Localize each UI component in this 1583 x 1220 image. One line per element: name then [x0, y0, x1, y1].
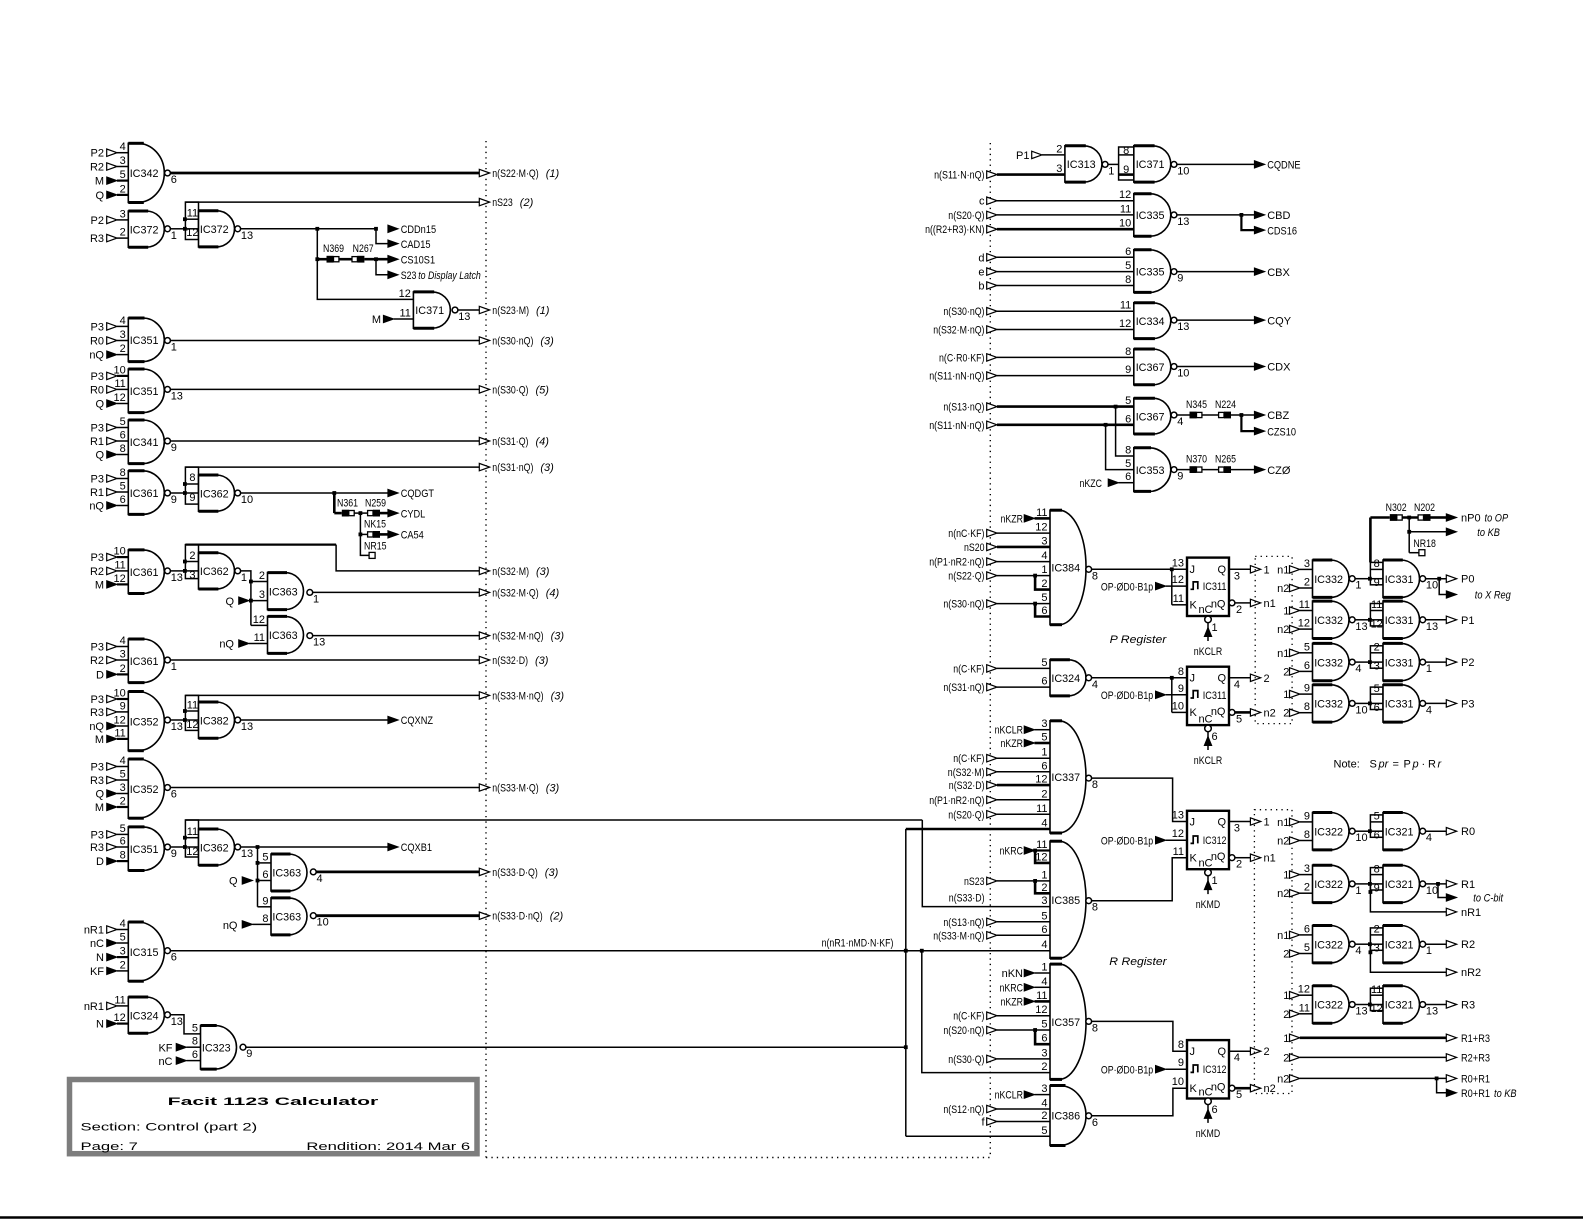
node KF [158, 1042, 200, 1054]
svg-text:R3: R3 [90, 707, 104, 719]
wire IC311b.nQ out [1229, 710, 1250, 726]
flag n(S32·M·Q) (4) [313, 587, 560, 599]
node R3 [90, 707, 117, 719]
svg-text:nKMD: nKMD [1196, 899, 1220, 911]
svg-text:P3: P3 [91, 474, 104, 486]
gate IC315 [117, 918, 177, 981]
wire IC335a.13 output [1177, 214, 1254, 216]
gate IC353 [1125, 445, 1183, 492]
svg-text:N302: N302 [1386, 502, 1407, 514]
svg-text:2: 2 [1304, 577, 1310, 589]
wire IC337.8 to IC312a J [1092, 778, 1187, 821]
svg-text:9: 9 [1123, 164, 1129, 176]
svg-text:12: 12 [1371, 618, 1383, 630]
svg-text:nC: nC [1198, 857, 1212, 869]
svg-text:6: 6 [192, 1049, 198, 1061]
svg-text:12: 12 [1035, 1004, 1047, 1016]
svg-text:4: 4 [120, 918, 126, 930]
gate IC324a [114, 994, 183, 1033]
flag CYDL [388, 508, 425, 520]
clear pin IC311a nC [1194, 616, 1222, 658]
wire to tie-box [1355, 883, 1370, 885]
svg-text:N259: N259 [365, 497, 386, 509]
svg-text:2: 2 [1056, 143, 1062, 155]
flag CBZ [1254, 410, 1289, 422]
svg-text:12: 12 [114, 715, 126, 727]
wire nR1 tap [1369, 884, 1447, 912]
node nS20 [964, 542, 1050, 554]
flag CQDNE [1254, 160, 1300, 172]
svg-text:9: 9 [120, 700, 126, 712]
tie-box IC331c pins 2,3 [1368, 642, 1383, 673]
svg-text:IC311: IC311 [1203, 581, 1227, 593]
junction [374, 257, 378, 261]
svg-text:n(S11·N·nQ): n(S11·N·nQ) [934, 170, 984, 182]
node n2 [1277, 836, 1312, 848]
dotted bus box P [1255, 556, 1292, 723]
svg-text:N370: N370 [1186, 453, 1207, 465]
svg-text:2: 2 [120, 227, 126, 239]
svg-text:3: 3 [1041, 718, 1047, 730]
svg-text:3: 3 [1056, 163, 1062, 175]
svg-text:KF: KF [90, 966, 104, 978]
svg-text:11: 11 [254, 632, 265, 644]
svg-text:2: 2 [1236, 859, 1242, 871]
junction [1240, 413, 1244, 417]
svg-text:12: 12 [114, 1012, 126, 1024]
svg-text:5: 5 [120, 416, 126, 428]
svg-text:5: 5 [120, 769, 126, 781]
junction [1114, 405, 1118, 409]
svg-text:P3: P3 [91, 642, 104, 654]
svg-text:IC322: IC322 [1314, 1000, 1343, 1012]
svg-text:12: 12 [253, 614, 265, 626]
tie-box IC331b pins 11,12 [1368, 599, 1383, 630]
svg-text:9: 9 [246, 1048, 252, 1060]
svg-text:5: 5 [1041, 910, 1047, 922]
pin 9 [1178, 1057, 1184, 1069]
svg-text:2: 2 [1283, 666, 1289, 678]
diode N302 [1386, 502, 1407, 521]
svg-text:nR1: nR1 [1461, 907, 1481, 919]
svg-text:CZØ: CZØ [1267, 465, 1291, 477]
node n(S13·nQ) [943, 402, 1133, 414]
wire IC331a.10 to P0 [1426, 577, 1447, 581]
svg-text:nR1: nR1 [84, 925, 104, 937]
pin 12 [1172, 828, 1184, 840]
pin 10 [1172, 700, 1184, 712]
svg-text:12: 12 [1371, 1003, 1383, 1015]
svg-text:1: 1 [1283, 870, 1289, 882]
svg-text:nKZR: nKZR [1001, 513, 1024, 525]
node n1 [1277, 564, 1312, 576]
svg-text:Q: Q [95, 450, 104, 462]
svg-text:R Register: R Register [1109, 956, 1168, 968]
svg-text:13: 13 [241, 230, 253, 242]
svg-text:1: 1 [1355, 885, 1361, 897]
svg-text:12: 12 [399, 288, 411, 300]
gate IC331a [1383, 560, 1438, 597]
clock label OP·ØD0·B1p [1101, 835, 1187, 847]
svg-text:13: 13 [313, 637, 325, 649]
svg-text:5: 5 [1236, 1089, 1242, 1101]
svg-text:10: 10 [1172, 700, 1184, 712]
junction [1407, 516, 1411, 520]
arrow into P-bus 2 [1250, 673, 1269, 685]
flag n(S32·M) (3) [479, 566, 549, 578]
svg-text:n(C·KF): n(C·KF) [953, 1011, 984, 1023]
node n(S12·nQ) [943, 1104, 1050, 1116]
node n(nC·KF) [948, 528, 1050, 540]
node nQ [219, 639, 267, 651]
svg-text:n(S33·D·Q): n(S33·D·Q) [492, 867, 538, 879]
svg-text:1: 1 [171, 230, 177, 242]
svg-text:IC331: IC331 [1385, 657, 1414, 669]
svg-text:IC312: IC312 [1203, 1064, 1227, 1076]
svg-text:P3: P3 [91, 762, 104, 774]
arrow into P-bus n2 [1250, 707, 1275, 719]
node M [95, 734, 117, 746]
svg-text:P2: P2 [91, 148, 104, 160]
svg-text:R0: R0 [90, 336, 104, 348]
svg-text:11: 11 [114, 378, 125, 390]
svg-text:5: 5 [1041, 1125, 1047, 1137]
svg-text:10: 10 [114, 364, 126, 376]
svg-text:3: 3 [1041, 1083, 1047, 1095]
gate IC322b [1304, 863, 1362, 903]
svg-text:n(S31·nQ): n(S31·nQ) [943, 682, 984, 694]
diode N369 [323, 243, 344, 263]
node 2 [1283, 708, 1312, 720]
svg-text:8: 8 [1374, 558, 1380, 570]
svg-text:CS10S1: CS10S1 [401, 254, 435, 266]
svg-text:n(P1·nR2·nQ): n(P1·nR2·nQ) [929, 795, 984, 807]
gate IC321a [1383, 813, 1432, 850]
svg-text:N265: N265 [1215, 453, 1236, 465]
svg-text:n(S22·M·Q): n(S22·M·Q) [492, 168, 538, 180]
flip-flop IC312b [1187, 1040, 1229, 1099]
wire IC362a.10 output [241, 492, 388, 494]
tie-box IC321c pins 2,3 [1368, 924, 1383, 955]
junction [256, 845, 260, 849]
flag n(S22·M·Q) (1) [171, 168, 560, 180]
gate IC386 [1041, 1083, 1098, 1145]
svg-text:R0+R1: R0+R1 [1461, 1073, 1490, 1085]
svg-text:11: 11 [114, 559, 125, 571]
svg-text:n(S33·D·nQ): n(S33·D·nQ) [492, 911, 542, 923]
node M [95, 176, 117, 188]
svg-text:12: 12 [186, 719, 198, 731]
tie-box IC331d pins 5,6 [1368, 683, 1383, 714]
node R0 [90, 336, 117, 348]
gate IC382 [199, 702, 254, 738]
label P Register [1110, 634, 1168, 646]
page bottom rule [0, 1216, 1583, 1219]
svg-text:IC342: IC342 [130, 168, 159, 180]
wire IC323.9 long net [246, 1046, 906, 1048]
svg-text:13: 13 [1177, 321, 1189, 333]
svg-text:nQ: nQ [89, 350, 104, 362]
svg-text:12: 12 [186, 227, 198, 239]
svg-text:R2: R2 [90, 566, 104, 578]
node nKN [1002, 968, 1050, 980]
node n(C·R0·KF) [939, 352, 1134, 364]
svg-text:8: 8 [262, 913, 268, 925]
svg-text:6: 6 [171, 174, 177, 186]
flag CQXNZ [388, 715, 433, 727]
svg-text:n(S32·D): n(S32·D) [492, 655, 528, 667]
svg-text:n(S33·M·Q): n(S33·M·Q) [492, 783, 538, 795]
svg-text:Q: Q [1217, 673, 1226, 685]
svg-text:3: 3 [120, 649, 126, 661]
wire nS23 [185, 201, 480, 203]
svg-text:3: 3 [1041, 1047, 1047, 1059]
svg-text:(3): (3) [540, 462, 554, 474]
svg-text:12: 12 [186, 846, 198, 858]
svg-text:S23: S23 [401, 270, 417, 282]
svg-text:IC363: IC363 [272, 868, 301, 880]
svg-text:nKZC: nKZC [1080, 478, 1103, 490]
arrow into P-bus n1 [1250, 598, 1275, 610]
svg-text:13: 13 [1355, 1006, 1367, 1018]
svg-text:11: 11 [1036, 839, 1047, 851]
svg-text:10: 10 [1355, 704, 1367, 716]
wire to IC371 pin 12 [317, 259, 413, 299]
gate IC385 [1035, 839, 1098, 958]
diode N202 [1414, 502, 1435, 521]
svg-text:P1: P1 [1016, 150, 1029, 162]
svg-text:n(S13·nQ): n(S13·nQ) [943, 917, 984, 929]
svg-text:5: 5 [1374, 811, 1380, 823]
flag n(S32·D) (3) [171, 655, 549, 667]
node R3 [90, 775, 117, 787]
svg-text:1: 1 [1283, 990, 1289, 1002]
node nR1 [84, 1001, 117, 1013]
svg-text:n(S32·M·nQ): n(S32·M·nQ) [492, 631, 543, 643]
svg-text:n(S30·Q): n(S30·Q) [948, 1054, 984, 1066]
node P3 [91, 371, 117, 383]
svg-text:9: 9 [1178, 683, 1184, 695]
flag P3 [1446, 698, 1474, 710]
svg-text:P: P [1404, 759, 1411, 771]
svg-text:4: 4 [1177, 416, 1183, 428]
svg-text:3: 3 [1374, 943, 1380, 955]
svg-text:(3): (3) [551, 690, 565, 702]
node M [95, 579, 117, 591]
title block [70, 1080, 478, 1154]
svg-text:12: 12 [114, 392, 126, 404]
gate IC352a [114, 688, 183, 751]
wire IC353.9 output [1177, 469, 1254, 471]
tie-box IC362c pins 11,12 [183, 820, 199, 858]
wire nMD net [906, 829, 1050, 1136]
svg-text:N: N [96, 1019, 104, 1031]
svg-text:(4): (4) [546, 587, 560, 599]
flag CDX [1254, 362, 1291, 374]
svg-text:(3): (3) [536, 566, 550, 578]
svg-text:8: 8 [1374, 863, 1380, 875]
gate IC337 [1035, 718, 1098, 833]
wire [380, 512, 388, 515]
gate IC313 [1056, 143, 1114, 182]
node n(S20·Q) [948, 210, 1134, 222]
svg-text:1: 1 [1264, 817, 1270, 829]
gate IC372b [199, 211, 254, 247]
svg-text:1: 1 [171, 661, 177, 673]
node nC [158, 1056, 200, 1068]
svg-text:2: 2 [1264, 673, 1270, 685]
svg-text:10: 10 [317, 917, 329, 929]
flag R2+R3 [1446, 1052, 1490, 1064]
svg-text:CDX: CDX [1267, 362, 1291, 374]
flag R1+R3 [1446, 1033, 1490, 1045]
svg-text:8: 8 [120, 443, 126, 455]
svg-text:5: 5 [192, 1022, 198, 1034]
wire IC334.13 output [1177, 319, 1254, 321]
svg-text:IC371: IC371 [415, 305, 444, 317]
svg-text:1: 1 [1041, 747, 1047, 759]
svg-text:1: 1 [171, 342, 177, 354]
svg-text:3: 3 [1304, 863, 1310, 875]
svg-text:IC332: IC332 [1314, 699, 1343, 711]
node 2 [1283, 666, 1312, 678]
flag CQXB1 [388, 842, 432, 854]
svg-text:8: 8 [1178, 1039, 1184, 1051]
gate IC331c [1383, 643, 1432, 680]
svg-text:NK15: NK15 [364, 519, 386, 531]
node n(S30·nQ) [943, 306, 1133, 318]
flag n(S30·Q) (5) [171, 384, 550, 396]
flag R1 [1446, 879, 1475, 891]
svg-text:CAD15: CAD15 [401, 239, 431, 251]
junction [904, 949, 908, 953]
node M [372, 314, 394, 326]
node 1 [1283, 870, 1312, 882]
node nQ [89, 501, 117, 513]
svg-text:10: 10 [1426, 885, 1438, 897]
wire IC321c.1 to R2 [1426, 943, 1447, 945]
svg-text:M: M [95, 802, 104, 814]
svg-text:n2: n2 [1264, 1083, 1276, 1095]
svg-text:IC332: IC332 [1314, 657, 1343, 669]
junction [1104, 423, 1108, 427]
svg-text:Q: Q [225, 596, 234, 608]
svg-text:nKMD: nKMD [1196, 1128, 1220, 1140]
svg-text:IC331: IC331 [1385, 574, 1414, 586]
svg-text:IC323: IC323 [202, 1043, 231, 1055]
svg-text:OP·ØD0·B1p: OP·ØD0·B1p [1101, 835, 1153, 847]
flag CZØ [1254, 465, 1290, 477]
flag n(S33·M·Q) (3) [171, 783, 560, 795]
node N [96, 952, 117, 964]
svg-text:P3: P3 [91, 694, 104, 706]
svg-text:6: 6 [1374, 702, 1380, 714]
svg-text:(2): (2) [520, 197, 534, 209]
svg-text:11: 11 [1299, 1002, 1310, 1014]
node n2 [1277, 624, 1312, 636]
wire IC362c.13 output [241, 846, 388, 848]
svg-text:12: 12 [1035, 522, 1047, 534]
wire to KB [1409, 518, 1500, 539]
svg-text:2: 2 [259, 570, 265, 582]
svg-text:N: N [96, 952, 104, 964]
svg-text:2: 2 [1304, 882, 1310, 894]
svg-text:Q: Q [1217, 816, 1226, 828]
gate IC363c (upper) [262, 851, 322, 891]
node nKCLR [995, 725, 1050, 737]
svg-text:R0: R0 [1461, 826, 1475, 838]
svg-text:IC352: IC352 [130, 784, 159, 796]
svg-text:IC332: IC332 [1314, 574, 1343, 586]
svg-text:S: S [1370, 759, 1377, 771]
svg-text:11: 11 [1036, 990, 1047, 1002]
flag CQDGT [388, 488, 434, 500]
flag n(S33·D·nQ) (2) [316, 911, 563, 923]
node n1 [1277, 648, 1312, 660]
pin 11 [1173, 846, 1184, 858]
svg-text:12: 12 [1035, 774, 1047, 786]
svg-text:n1: n1 [1264, 598, 1276, 610]
svg-text:CDS16: CDS16 [1267, 225, 1297, 237]
clear pin IC312a nC [1196, 869, 1220, 911]
svg-text:1: 1 [1212, 875, 1218, 887]
node 2 [1283, 1009, 1312, 1021]
node 2 [1283, 949, 1312, 961]
node 1 [1283, 990, 1312, 1002]
wire IC335b.9 output [1177, 271, 1254, 273]
svg-text:4: 4 [1041, 550, 1047, 562]
svg-text:nQ: nQ [89, 501, 104, 513]
pin 13 [1172, 810, 1184, 822]
svg-text:IC351: IC351 [130, 844, 159, 856]
pin 10 [1172, 1076, 1184, 1088]
wire IC372b.13 output [241, 228, 376, 230]
svg-text:5: 5 [120, 932, 126, 944]
wire IC367b.4 output [1177, 414, 1254, 416]
svg-text:11: 11 [1036, 507, 1047, 519]
gate IC332b [1298, 599, 1368, 639]
svg-text:IC324: IC324 [1051, 673, 1080, 685]
label R Register [1109, 956, 1168, 968]
gate IC322a [1304, 810, 1368, 850]
svg-text:CYDL: CYDL [401, 508, 426, 520]
node KF [90, 966, 117, 978]
svg-text:9: 9 [1178, 1057, 1184, 1069]
svg-text:nKZR: nKZR [1001, 738, 1024, 750]
wire IC312b.nQ out [1229, 1085, 1250, 1101]
svg-text:1: 1 [1108, 165, 1114, 177]
diode N370 [1186, 453, 1207, 473]
wire to X Reg [1439, 579, 1511, 602]
svg-text:CA54: CA54 [401, 530, 424, 542]
junction [1240, 213, 1244, 217]
node n(P1·nR2·nQ) [929, 557, 1050, 569]
svg-text:R1+R3: R1+R3 [1461, 1033, 1490, 1045]
svg-text:2: 2 [1264, 1046, 1270, 1058]
svg-text:CBZ: CBZ [1267, 410, 1289, 422]
svg-text:n(S32·M): n(S32·M) [948, 767, 985, 779]
svg-text:3: 3 [120, 946, 126, 958]
gate IC362b [199, 553, 248, 589]
svg-text:IC382: IC382 [200, 715, 229, 727]
wire IC331d.4 to P3 [1426, 702, 1447, 704]
svg-text:IC371: IC371 [1136, 159, 1165, 171]
node n(S33·M·nQ) [933, 930, 1050, 942]
svg-text:to KB: to KB [1494, 1088, 1517, 1100]
node D [96, 856, 117, 868]
node Q [95, 789, 117, 801]
flag CBD [1254, 210, 1290, 222]
